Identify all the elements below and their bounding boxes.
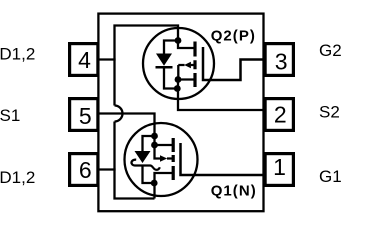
Q2 source bar	[178, 78, 195, 80]
svg-text:3: 3	[275, 49, 288, 75]
Q2 drain bar	[178, 41, 195, 49]
svg-text:Q1(N): Q1(N)	[211, 183, 257, 200]
svg-text:S1: S1	[0, 106, 20, 125]
Q2 junction dot (source/diode)	[174, 85, 181, 92]
Q2 body connection with arrow	[178, 65, 195, 80]
Q1 body diode triangle	[135, 151, 151, 163]
Q1 body connection with arrow	[155, 145, 174, 159]
pin 2 box	[265, 99, 293, 131]
svg-text:1: 1	[273, 154, 286, 180]
Q2 body arrow head (P-channel, points away from channel)	[184, 62, 191, 68]
svg-text:Q2(P): Q2(P)	[211, 27, 256, 44]
svg-text:G1: G1	[319, 167, 342, 186]
svg-text:5: 5	[79, 103, 92, 129]
package outline	[98, 14, 263, 212]
svg-text:4: 4	[78, 47, 91, 73]
Q1 drain bar and stem to rail	[155, 173, 174, 199]
svg-text:2: 2	[274, 101, 287, 127]
wire S1 from pin 5 to Q1 source	[97, 114, 173, 146]
Q1 junction dot (drain/diode)	[151, 180, 158, 187]
Q2 diode cathode bar	[156, 66, 173, 69]
Q2 diode connection wires	[164, 41, 178, 89]
Q2 junction dot (source bar)	[175, 76, 182, 83]
wire common drain rail (node D1,2)	[115, 26, 179, 199]
svg-text:D1,2: D1,2	[0, 45, 35, 64]
Q2 source stem and wire to pin 2 (S2)	[178, 80, 264, 111]
svg-text:S2: S2	[319, 103, 340, 122]
Q1 channel segments	[172, 138, 175, 180]
wire pin 4 to drain rail	[97, 58, 116, 60]
Q2 channel segments	[193, 42, 196, 88]
transistor Q1 circle	[125, 123, 198, 196]
pin 4 box	[70, 44, 98, 76]
Q2 gate line and wire to pin 3 (G2)	[203, 47, 264, 80]
wire pin 6 to drain rail	[97, 168, 116, 170]
Q1 junction dot (diode tap)	[151, 133, 158, 140]
Q1 junction dot (source bar)	[151, 142, 158, 149]
svg-text:D1,2: D1,2	[0, 168, 35, 187]
Q1 gate line and wire to pin 1 (G1)	[181, 143, 264, 175]
Q2 junction dot (diode tap)	[175, 37, 182, 44]
pin 3 box	[265, 44, 293, 76]
Q1 diode connection wires	[143, 136, 155, 183]
svg-text:G2: G2	[319, 41, 342, 60]
Q1 schottky cathode bar with curls	[131, 160, 159, 170]
transistor Q2 circle	[143, 28, 214, 99]
Q2 body diode triangle	[156, 54, 172, 66]
pin 1 box	[265, 154, 293, 186]
Q1 body arrow head (N-channel, points to channel)	[160, 155, 167, 162]
pin 6 box	[70, 154, 98, 186]
pin 5 box	[70, 99, 98, 131]
drain rail hop over S1 wire	[115, 106, 123, 122]
svg-text:6: 6	[79, 157, 92, 183]
